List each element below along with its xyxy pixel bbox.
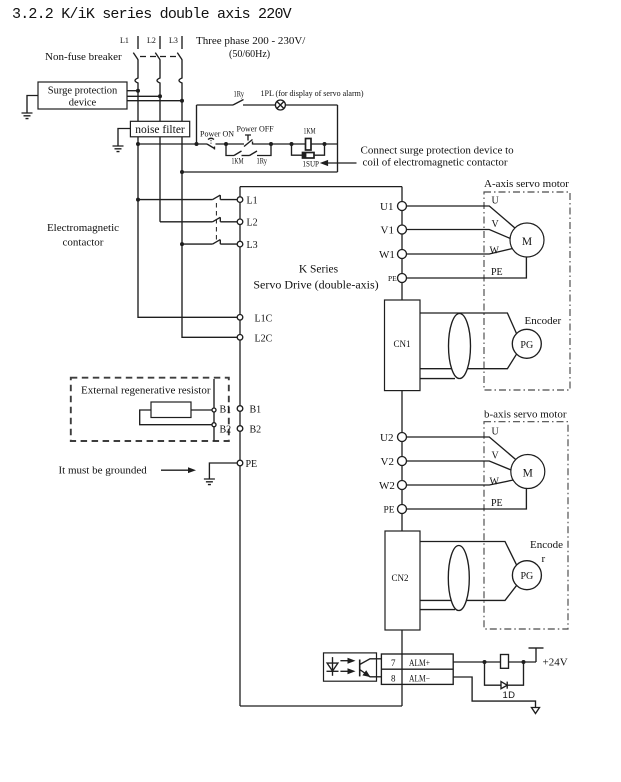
wire ALM+ [453, 660, 536, 664]
svg-text:Power ON: Power ON [200, 130, 234, 139]
wire L1 below filter [137, 137, 139, 200]
ground noise filter [113, 129, 131, 152]
wire L1 to L1C [138, 200, 237, 318]
svg-text:K Series: K Series [299, 264, 339, 276]
svg-text:V: V [492, 219, 500, 230]
svg-text:U2: U2 [380, 432, 393, 444]
wire opto to pin7 [377, 658, 382, 660]
terminal L3 [237, 240, 257, 251]
noise filter box [130, 121, 189, 137]
svg-text:noise filter: noise filter [135, 124, 185, 136]
breaker pole L1 [133, 53, 138, 60]
terminal PE A [388, 274, 407, 284]
svg-text:Encoder: Encoder [525, 315, 562, 327]
svg-text:Electromagnetic: Electromagnetic [47, 222, 119, 234]
label K series servo drive [253, 264, 378, 292]
wire L1 with thermal hook [135, 60, 138, 122]
wire L2 top [159, 36, 161, 49]
svg-text:1D: 1D [503, 690, 516, 701]
svg-text:Three phase 200 - 230V/: Three phase 200 - 230V/ [196, 35, 306, 47]
wire opto to pin8 [377, 676, 382, 678]
label A-axis servo motor [484, 178, 569, 190]
ground surge protection [22, 96, 39, 119]
supply +24V [529, 648, 568, 669]
label electromagnetic contactor [47, 222, 119, 249]
svg-text:V: V [492, 451, 500, 462]
A-axis motor dash-dot box [484, 192, 570, 390]
svg-text:contactor: contactor [63, 237, 104, 249]
wire L3 top [181, 36, 183, 49]
terminal L2C [237, 333, 272, 344]
svg-text:M: M [522, 236, 532, 248]
control main rail [136, 142, 338, 146]
cable bundle ellipse b [448, 546, 469, 611]
cable CN1 bottom [420, 354, 517, 369]
terminal B2 [237, 425, 261, 436]
svg-text:PE: PE [491, 267, 503, 278]
title [12, 6, 292, 23]
cable CN2 bottom [420, 586, 517, 601]
arrow to 1SUP [320, 145, 514, 169]
control left vertical [196, 105, 198, 144]
svg-text:W1: W1 [379, 249, 395, 261]
svg-text:PE: PE [491, 498, 503, 509]
svg-text:B1: B1 [250, 405, 262, 416]
svg-text:U: U [492, 196, 500, 207]
connector CN2 [385, 531, 420, 630]
svg-text:A-axis servo motor: A-axis servo motor [484, 178, 569, 190]
connector CN1 [385, 300, 421, 391]
optocoupler phototransistor [360, 659, 377, 677]
cable CN2 extra [420, 609, 455, 611]
terminal V2 [381, 456, 407, 468]
svg-text:CN2: CN2 [391, 573, 408, 583]
svg-text:W: W [490, 246, 500, 257]
encoder PG A [512, 329, 541, 358]
svg-text:V2: V2 [381, 456, 394, 468]
svg-text:M: M [523, 467, 533, 479]
svg-text:PE: PE [388, 274, 397, 283]
svg-text:It must be grounded: It must be grounded [59, 465, 148, 477]
wire PE A to motor [407, 257, 527, 278]
svg-text:PE: PE [384, 506, 395, 516]
motor M b-axis [511, 455, 545, 489]
optocoupler arrows [340, 658, 355, 675]
wire W1 to motor [407, 246, 513, 257]
resistor external [151, 402, 191, 418]
svg-text:L1: L1 [120, 36, 129, 45]
diode 1D branch [485, 662, 524, 701]
terminal L1 [237, 196, 257, 207]
svg-text:CN1: CN1 [393, 339, 410, 349]
svg-text:ALM+: ALM+ [409, 658, 430, 668]
terminal U2 [380, 432, 407, 444]
wire U2 to motor [407, 427, 517, 461]
coil 1KM [304, 127, 316, 151]
wire resistor to B1 stub [191, 409, 212, 411]
terminal L2 [237, 218, 257, 229]
control top line [197, 104, 338, 106]
svg-text:1KM: 1KM [304, 127, 316, 136]
terminal U1 [380, 201, 407, 213]
wire L3 below filter [181, 137, 183, 244]
cable bundle ellipse A [449, 314, 471, 379]
wire surge to L1 [127, 89, 140, 93]
wire resistor to B2 stub [140, 410, 212, 425]
breaker pole L3 [177, 53, 182, 60]
wire PE b to motor [407, 489, 527, 510]
svg-text:Power OFF: Power OFF [237, 125, 275, 134]
svg-text:Surge protection: Surge protection [48, 86, 118, 97]
wire ALM- to ground [453, 677, 535, 708]
svg-text:1SUP: 1SUP [303, 160, 320, 169]
svg-text:L3: L3 [169, 36, 178, 45]
cable CN1 extra [420, 378, 455, 380]
surge protection device box [38, 82, 127, 109]
svg-text:PG: PG [521, 571, 534, 582]
svg-text:coil of electromagnetic contac: coil of electromagnetic contactor [363, 157, 508, 169]
wire L2 with thermal hook [157, 60, 160, 122]
svg-text:8: 8 [391, 673, 396, 683]
svg-text:W: W [490, 477, 500, 488]
motor M A-axis [510, 223, 544, 257]
wire L3 with thermal hook [179, 60, 182, 122]
drive right column vertical [401, 187, 403, 706]
optocoupler box [324, 653, 377, 681]
node L1 label [120, 36, 129, 45]
svg-text:b-axis servo motor: b-axis servo motor [484, 409, 567, 421]
svg-text:+24V: +24V [543, 657, 568, 669]
wire L3 to L2C [182, 244, 237, 337]
terminal W1 [379, 249, 407, 261]
encoder PG b [512, 561, 541, 590]
cable CN2 top [420, 542, 517, 565]
stub terminal B2 [212, 423, 231, 436]
switch Power ON [200, 130, 234, 150]
svg-text:Connect surge protection devic: Connect surge protection device to [361, 145, 515, 157]
terminal PE b [384, 505, 407, 516]
svg-text:U1: U1 [380, 201, 393, 213]
ground PE [204, 463, 237, 485]
wire W2 to motor [407, 477, 514, 488]
node L2 label [147, 36, 156, 45]
svg-text:W2: W2 [379, 480, 395, 492]
label encoder b [530, 539, 563, 565]
label non-fuse breaker [45, 51, 122, 63]
svg-text:PG: PG [520, 340, 533, 351]
svg-text:(50/60Hz): (50/60Hz) [229, 49, 270, 60]
wire surge to L3 [127, 99, 184, 103]
terminal V1 [381, 224, 407, 236]
arrow grounded [161, 467, 196, 473]
svg-text:L2: L2 [147, 36, 156, 45]
wire L1 top [137, 36, 139, 49]
contact 1Ry top [233, 90, 244, 106]
signal ground triangle [532, 708, 540, 714]
svg-text:3.2.2 K/iK series double axis: 3.2.2 K/iK series double axis 220V [12, 6, 292, 23]
svg-text:L3: L3 [247, 240, 258, 251]
switch Power OFF [237, 125, 275, 147]
control bottom rail [180, 170, 338, 174]
svg-text:Non-fuse breaker: Non-fuse breaker [45, 51, 122, 63]
svg-text:V1: V1 [381, 224, 394, 236]
wire V1 to motor [407, 219, 511, 239]
breaker linkage dashed [140, 56, 180, 58]
optocoupler LED [327, 657, 339, 676]
svg-text:PE: PE [246, 459, 258, 470]
terminal W2 [379, 480, 407, 492]
stub terminal B1 [212, 405, 231, 416]
label it must be grounded [59, 465, 148, 477]
wire U1 to motor [407, 196, 516, 229]
b-axis motor dash-dot box [484, 422, 568, 629]
label three phase supply [196, 35, 306, 60]
control right vertical [337, 105, 339, 172]
svg-text:1Ry: 1Ry [257, 157, 268, 166]
wire V2 to motor [407, 451, 512, 471]
breaker pole L2 [155, 53, 160, 60]
branch holding contacts [226, 144, 271, 166]
terminal table ALM [381, 654, 453, 684]
svg-text:Servo Drive (double-axis): Servo Drive (double-axis) [253, 278, 378, 292]
svg-text:L1C: L1C [255, 313, 273, 324]
svg-text:1KM: 1KM [232, 157, 244, 166]
contactor pole L3 [180, 240, 237, 247]
svg-text:L2: L2 [247, 218, 258, 229]
svg-text:Encode: Encode [530, 539, 563, 551]
terminal L1C [237, 313, 272, 324]
svg-text:B2: B2 [220, 425, 232, 436]
contactor linkage dashed [215, 203, 217, 241]
cable CN1 top [420, 313, 517, 334]
wire L2 below filter [159, 137, 161, 222]
svg-text:External regenerative resistor: External regenerative resistor [81, 385, 211, 397]
servo drive outline [240, 187, 402, 706]
svg-text:ALM−: ALM− [409, 673, 430, 683]
svg-text:1PL (for display of servo alar: 1PL (for display of servo alarm) [261, 89, 364, 98]
external regenerative resistor dashed box [71, 378, 229, 441]
label encoder A [525, 315, 562, 327]
lamp 1PL [261, 89, 364, 110]
label b-axis servo motor [484, 409, 567, 421]
terminal PE [237, 459, 257, 470]
contactor pole L2 [160, 217, 237, 222]
svg-text:7: 7 [391, 658, 396, 668]
wire surge to L2 [127, 94, 162, 98]
stub bus vertical [213, 379, 215, 441]
svg-text:device: device [69, 98, 97, 109]
node L3 label [169, 36, 178, 45]
relay coil [501, 655, 509, 669]
svg-text:1Ry: 1Ry [234, 90, 245, 99]
svg-text:U: U [492, 427, 500, 438]
terminal B1 [237, 405, 261, 416]
svg-text:B2: B2 [250, 425, 262, 436]
svg-text:L2C: L2C [255, 333, 273, 344]
contactor pole L1 [136, 195, 237, 202]
svg-text:B1: B1 [220, 405, 232, 416]
svg-text:r: r [542, 553, 546, 565]
surge absorber 1SUP [292, 144, 325, 169]
svg-text:L1: L1 [247, 196, 258, 207]
